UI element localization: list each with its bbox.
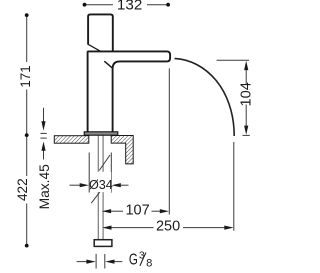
svg-text:104: 104	[239, 82, 255, 106]
svg-text:G: G	[129, 252, 138, 269]
svg-text:8: 8	[146, 257, 152, 269]
svg-text:Max.45: Max.45	[37, 164, 52, 210]
svg-text:107: 107	[125, 203, 149, 219]
svg-text:250: 250	[156, 219, 180, 235]
svg-text:171: 171	[18, 65, 33, 87]
svg-text:422: 422	[15, 178, 30, 201]
svg-text:132: 132	[117, 0, 142, 13]
svg-text:Ø34: Ø34	[89, 178, 113, 192]
